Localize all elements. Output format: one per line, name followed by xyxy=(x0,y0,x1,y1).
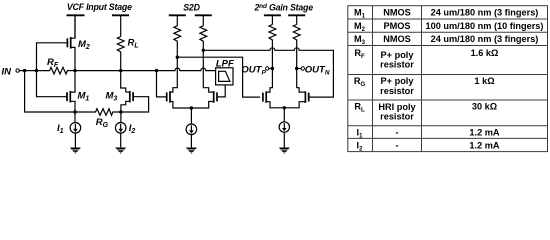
wire VDD to 2nd stage left resistor xyxy=(271,15,273,24)
resistor S2D left load xyxy=(174,26,181,43)
svg-text:M1: M1 xyxy=(78,91,90,103)
node junction drain of M1/M2 xyxy=(73,69,76,72)
svg-text:M1: M1 xyxy=(354,8,366,20)
wire IN to RF xyxy=(19,70,48,72)
wire gate tap down to M1 gate xyxy=(37,71,67,97)
current source I2 xyxy=(120,112,122,123)
svg-text:M3: M3 xyxy=(106,91,118,103)
transistor M3 (mirrored) xyxy=(130,91,133,103)
svg-text:resistor: resistor xyxy=(380,111,414,121)
wire M3 gate loop to rail xyxy=(121,97,149,112)
wire RF right to drain node xyxy=(69,70,75,72)
node junction at IN tap xyxy=(23,69,26,72)
svg-text:resistor: resistor xyxy=(380,86,414,96)
wire 2nd left load down to drain xyxy=(267,42,273,93)
ground (I1) xyxy=(70,148,81,154)
transistor M1 xyxy=(67,91,70,103)
wire IN tap down to bottom rail xyxy=(25,71,94,112)
svg-text:-: - xyxy=(395,127,398,137)
svg-text:RG: RG xyxy=(354,76,366,88)
wire main to LPF with hops xyxy=(157,68,216,71)
svg-text:PMOS: PMOS xyxy=(383,21,410,31)
node junction S2D gate tap xyxy=(155,69,158,72)
wire 2nd right load down to drain xyxy=(297,42,302,93)
transistor M2 xyxy=(67,37,70,49)
wire OUT_P stub xyxy=(269,68,273,70)
svg-text:LPF: LPF xyxy=(216,59,234,70)
ground (2nd stage tail) xyxy=(279,148,290,154)
node junction rail left (M1/I1) xyxy=(73,110,76,113)
resistor S2D right load xyxy=(200,26,207,43)
svg-text:RL: RL xyxy=(128,38,139,50)
node junction rail right (M3/I2) xyxy=(119,110,122,113)
wire B (left S2D output to 2nd stage left gate) xyxy=(177,57,260,97)
wire S2D left gate xyxy=(157,71,167,97)
LPF response icon xyxy=(219,71,230,81)
wire S2D right gate to LPF output xyxy=(218,85,226,97)
svg-text:1.6 kΩ: 1.6 kΩ xyxy=(471,48,499,58)
VDD supply bar (VCF stage, RL branch) xyxy=(112,14,129,16)
svg-text:1 kΩ: 1 kΩ xyxy=(474,76,494,86)
current source 2nd stage tail xyxy=(283,108,285,122)
node junction at RL bottom xyxy=(119,69,122,72)
wire main node to S2D gate tap xyxy=(121,70,157,72)
svg-text:M3: M3 xyxy=(354,34,366,46)
wire RL node to M3 drain (jog) xyxy=(121,71,126,93)
svg-text:I1: I1 xyxy=(57,123,64,135)
resistor RF xyxy=(48,67,68,74)
current source I1 xyxy=(74,112,76,123)
svg-text:100 um/180 nm (10 fingers): 100 um/180 nm (10 fingers) xyxy=(426,21,544,31)
svg-text:24 um/180 nm (3 fingers): 24 um/180 nm (3 fingers) xyxy=(431,34,539,44)
wire VDD to S2D left resistor xyxy=(176,15,178,25)
wire 2nd left source to tail xyxy=(266,102,284,108)
svg-text:M2: M2 xyxy=(78,39,90,51)
node junction OUT_N xyxy=(295,67,298,70)
transistor 2nd stage left xyxy=(263,91,266,103)
VDD supply bar (S2D right) xyxy=(195,14,212,16)
svg-text:HRI poly: HRI poly xyxy=(378,102,416,112)
terminal OUT_P xyxy=(266,67,269,70)
svg-text:OUTN: OUTN xyxy=(305,64,330,76)
wire gate tap up to M2 gate xyxy=(37,43,67,71)
svg-text:NMOS: NMOS xyxy=(383,8,411,18)
svg-text:30 kΩ: 30 kΩ xyxy=(472,102,497,112)
svg-text:resistor: resistor xyxy=(380,60,414,70)
node junction 2nd stage tail xyxy=(283,106,286,109)
svg-text:I1: I1 xyxy=(357,127,364,139)
resistor 2nd stage left load xyxy=(269,25,276,42)
resistor 2nd stage right load xyxy=(293,25,300,42)
svg-text:IN: IN xyxy=(2,66,13,77)
transistor 2nd stage right (mirrored) xyxy=(305,91,308,103)
svg-text:24 um/180 nm (3 fingers): 24 um/180 nm (3 fingers) xyxy=(431,8,539,18)
terminal OUT_N xyxy=(301,67,304,70)
transistor S2D left xyxy=(167,91,170,103)
svg-text:M2: M2 xyxy=(354,21,366,33)
svg-text:P+ poly: P+ poly xyxy=(381,50,415,60)
device parameter table xyxy=(348,6,548,152)
VDD supply bar (S2D left) xyxy=(169,14,186,16)
node junction gate tap xyxy=(35,69,38,72)
wire VDD to RL top xyxy=(120,15,122,36)
svg-text:RF: RF xyxy=(354,48,365,60)
svg-text:RF: RF xyxy=(47,57,59,69)
svg-text:NMOS: NMOS xyxy=(383,34,411,44)
svg-text:-: - xyxy=(395,140,398,150)
wire OUT_N stub xyxy=(297,68,301,70)
node junction S2D tail xyxy=(190,106,193,109)
svg-text:P+ poly: P+ poly xyxy=(381,76,415,86)
wire S2D right source to tail xyxy=(191,102,213,109)
LPF box xyxy=(216,68,233,85)
svg-text:S2D: S2D xyxy=(183,2,200,12)
svg-text:I2: I2 xyxy=(357,140,364,152)
resistor RL xyxy=(117,37,124,54)
wire S2D left source to tail xyxy=(170,102,191,109)
VDD supply bar (VCF stage, M2 branch) xyxy=(67,14,85,16)
wire A (right S2D output to 2nd stage right gate, with hops) xyxy=(203,48,333,97)
transistor S2D right (mirrored) xyxy=(214,91,217,103)
wire RL bottom to main node xyxy=(120,54,122,71)
svg-text:OUTP: OUTP xyxy=(241,64,266,76)
ground (I2) xyxy=(115,148,126,154)
svg-text:I2: I2 xyxy=(129,123,136,135)
svg-text:RL: RL xyxy=(354,102,365,114)
svg-text:VCF Input Stage: VCF Input Stage xyxy=(67,2,132,12)
VDD supply bar (2nd stage right) xyxy=(288,14,305,16)
wire S2D left load down to drain xyxy=(170,43,177,93)
ground (S2D tail) xyxy=(186,148,197,154)
node junction wire B start xyxy=(176,56,179,59)
input terminal IN xyxy=(16,69,19,72)
wire VDD to M2 source xyxy=(74,15,76,38)
wire S2D right load down to drain xyxy=(203,43,213,93)
svg-text:RG: RG xyxy=(96,117,109,129)
resistor RG xyxy=(94,109,121,116)
wire main node to RL node xyxy=(75,70,121,72)
node junction wire A start xyxy=(202,49,205,52)
current source S2D tail xyxy=(190,108,192,124)
node junction OUT_P xyxy=(271,67,274,70)
svg-text:1.2 mA: 1.2 mA xyxy=(469,127,499,137)
wire VDD to S2D right resistor xyxy=(202,15,204,25)
svg-text:2nd Gain Stage: 2nd Gain Stage xyxy=(253,2,313,12)
wire VDD to 2nd stage right resistor xyxy=(296,15,298,24)
wire 2nd right source to tail xyxy=(284,102,305,108)
VDD supply bar (2nd stage left) xyxy=(264,14,281,16)
svg-text:1.2 mA: 1.2 mA xyxy=(469,140,499,150)
